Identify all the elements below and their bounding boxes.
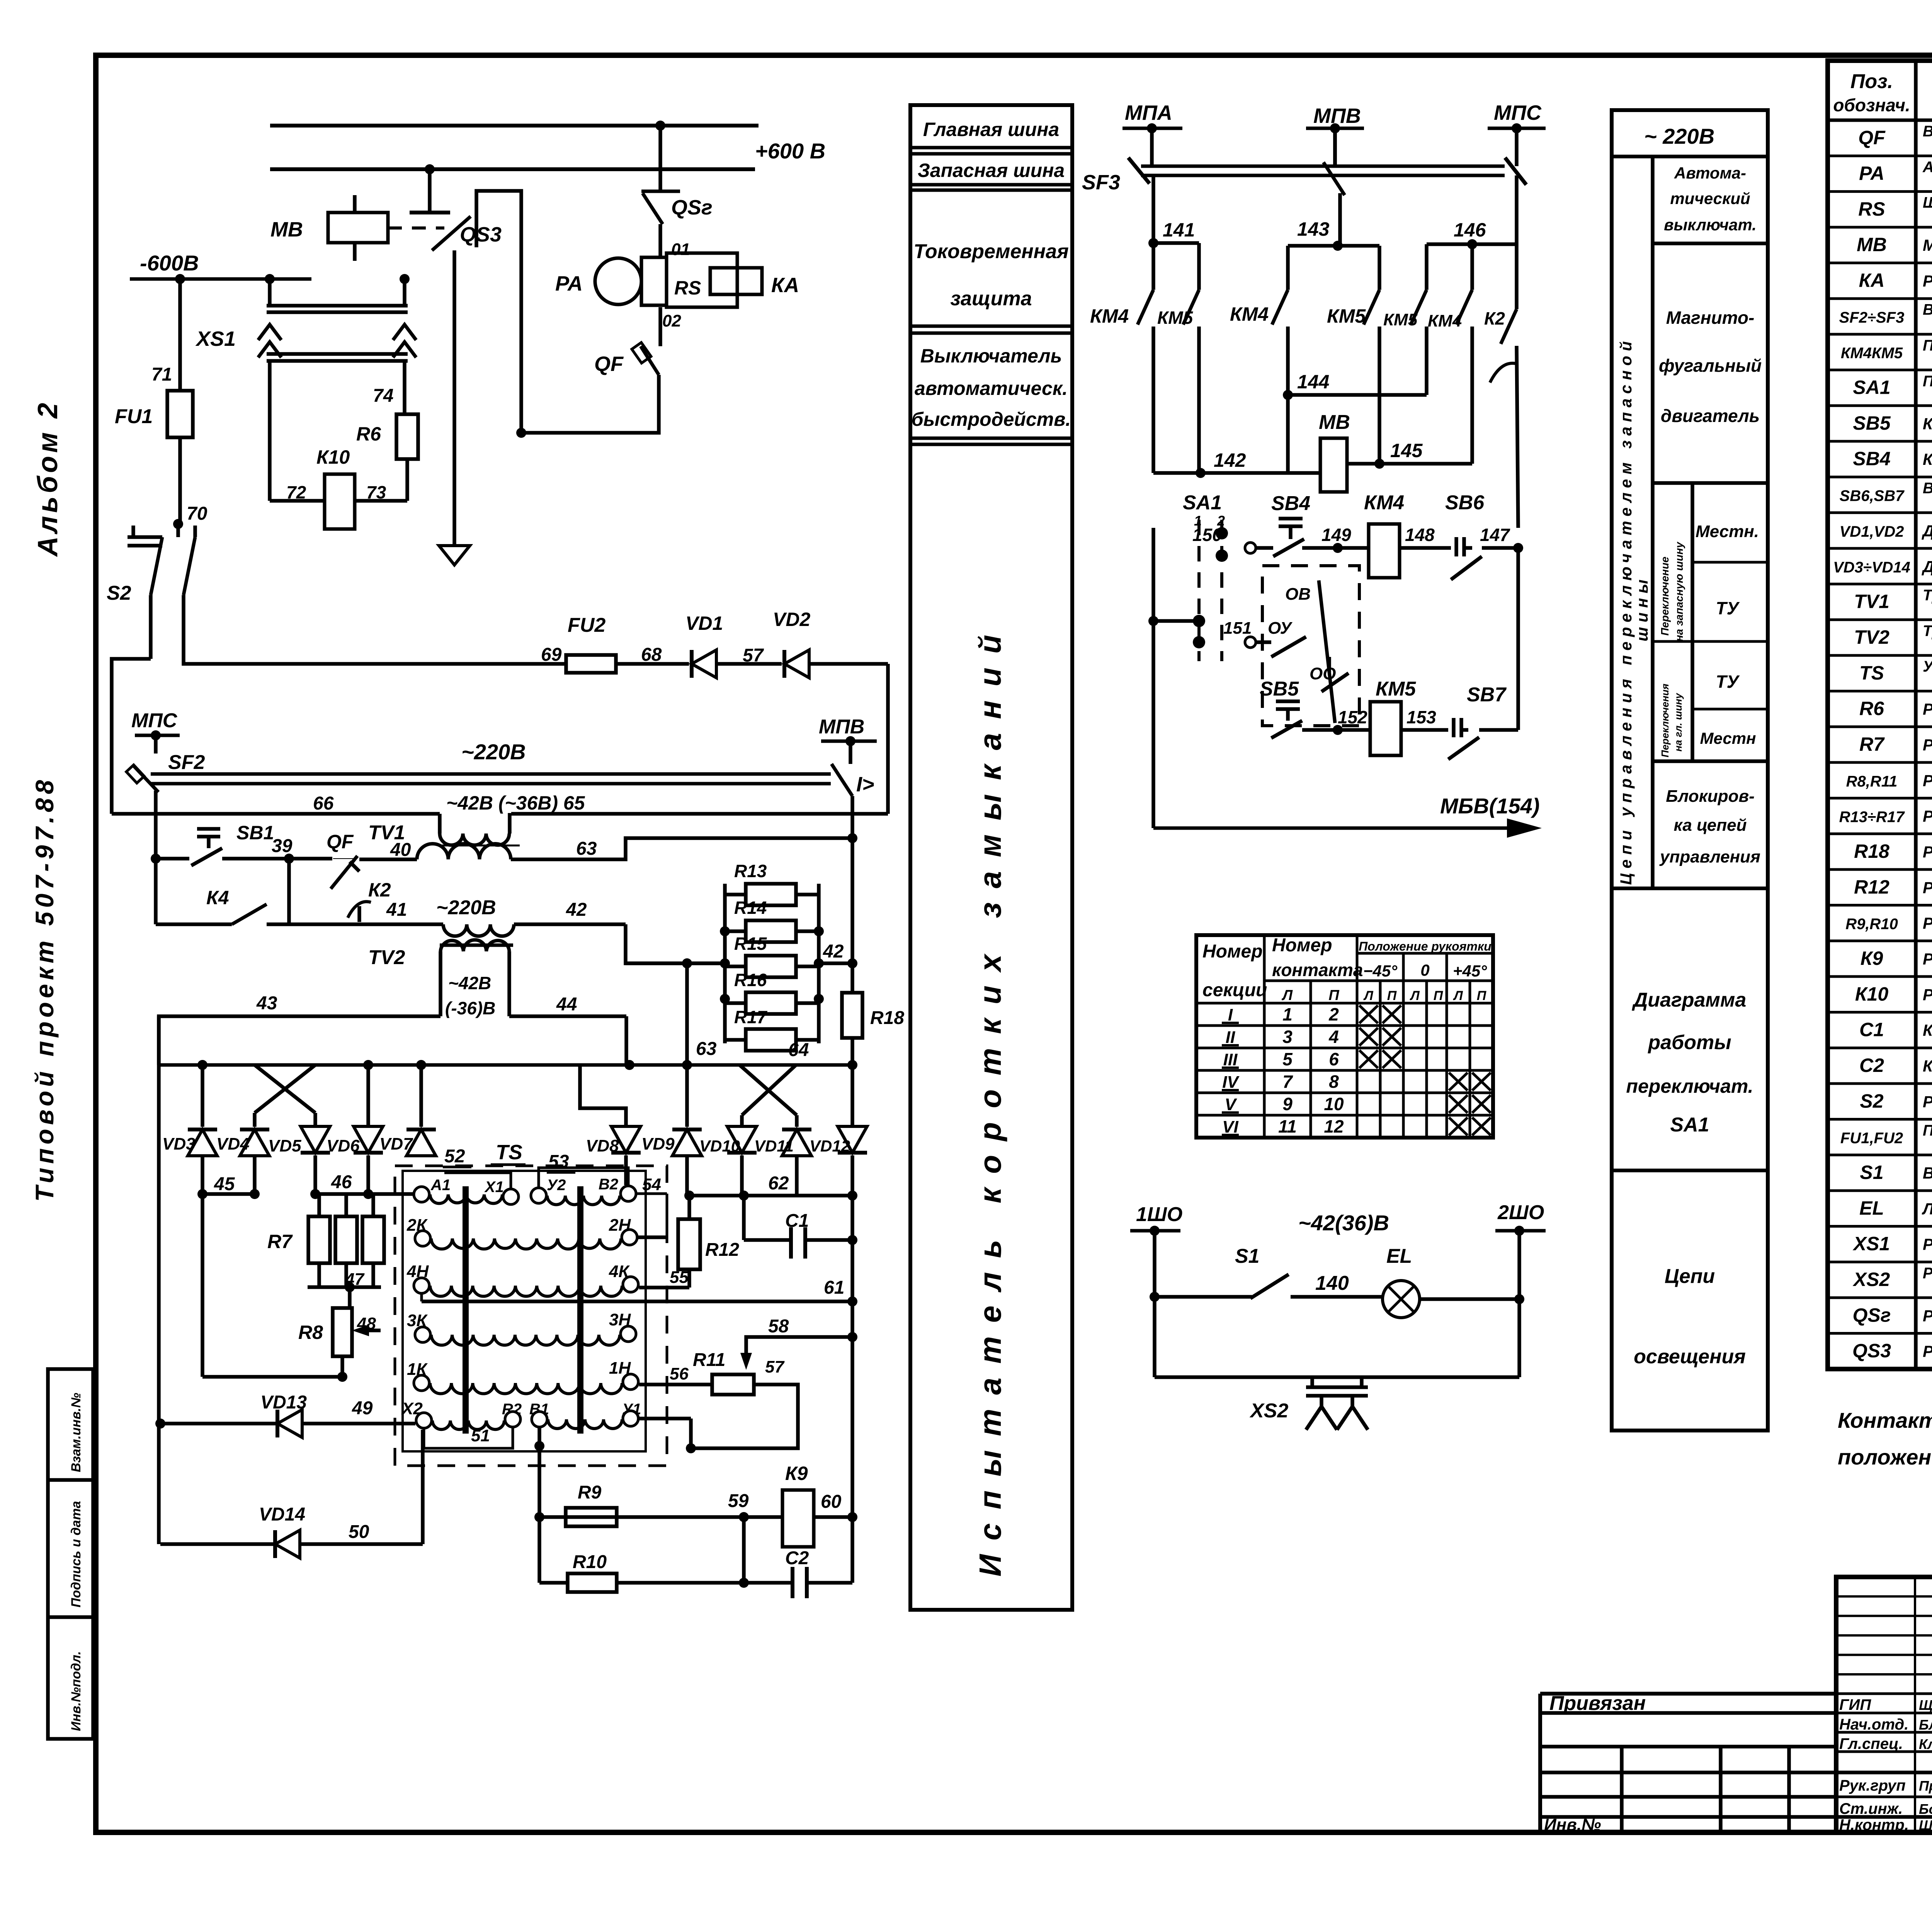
- left schematic main vertical: [157, 1016, 161, 1544]
- parts row R13÷R17: [1839, 806, 1932, 827]
- svg-text:TV1: TV1: [1854, 591, 1889, 612]
- wire R8 bottom: [202, 1372, 347, 1382]
- wire 145: [1347, 440, 1472, 469]
- wire 46: [310, 1155, 422, 1199]
- wire crossing X right: [740, 1065, 797, 1127]
- parts row SF2÷SF3: [1839, 301, 1932, 334]
- parts table grid: [1828, 61, 1932, 1369]
- diode VD10: [699, 1126, 757, 1196]
- svg-text:74: 74: [373, 386, 393, 406]
- diode VD5: [268, 1126, 330, 1155]
- svg-text:S2: S2: [107, 582, 131, 604]
- svg-text:Предохранитель ПРС-6, УЗ-П,38: Предохранитель ПРС-6, УЗ-П,380В Iпл.Вст=…: [1923, 1122, 1932, 1139]
- parts row R9,R10: [1845, 913, 1932, 934]
- TS winding 2К-2Н: [406, 1216, 637, 1249]
- resistor R13: [725, 861, 819, 905]
- svg-text:Переключение: Переключение: [1659, 556, 1671, 636]
- legend Блокировка цепей управления: [1659, 787, 1760, 866]
- node МПВ right: [819, 716, 877, 764]
- svg-text:145: 145: [1390, 440, 1423, 461]
- contact КМ5 a: [1157, 290, 1199, 473]
- wire SF2 drop: [151, 791, 161, 924]
- TS winding 1К-1Н: [407, 1359, 638, 1394]
- svg-text:Л: Л: [1363, 988, 1373, 1003]
- svg-text:Розетка штепсельная РШ-П-2-0-0: Розетка штепсельная РШ-П-2-0-01-10/42, Г…: [1923, 1265, 1932, 1282]
- wire lamp to right: [1420, 1294, 1524, 1304]
- svg-text:Трансформатор ОСМ-0.063-УЗ-220: Трансформатор ОСМ-0.063-УЗ-220 −42(36): [1923, 623, 1932, 640]
- svg-text:51: 51: [471, 1426, 490, 1445]
- svg-text:МВ: МВ: [1857, 234, 1887, 255]
- svg-text:Привезенцева: Привезенцева: [1919, 1778, 1932, 1794]
- svg-text:Л: Л: [1281, 987, 1293, 1004]
- svg-text:SF2: SF2: [168, 751, 205, 774]
- diode VD13: [155, 1392, 415, 1437]
- svg-text:R17: R17: [734, 1007, 768, 1027]
- wire 153: [1401, 707, 1448, 730]
- wire 146: [1427, 175, 1517, 290]
- wire 45: [197, 1155, 260, 1377]
- svg-text:R18: R18: [1854, 840, 1889, 862]
- svg-text:QSг: QSг: [1853, 1304, 1891, 1326]
- svg-text:Х1: Х1: [484, 1179, 504, 1196]
- switch SA1 dashed: [1183, 492, 1256, 661]
- breaker QF main: [516, 342, 659, 438]
- svg-text:~42В: ~42В: [448, 973, 491, 993]
- svg-text:К10: К10: [1855, 983, 1889, 1005]
- breaker SF2: [126, 751, 205, 792]
- parts row FU1,FU2: [1840, 1122, 1932, 1155]
- svg-text:Резистор нерегулируемый ПЭВ-25: Резистор нерегулируемый ПЭВ-25,24К,ГОСТ6…: [1923, 700, 1932, 718]
- svg-text:ТУ: ТУ: [1716, 598, 1740, 618]
- svg-text:выключат.: выключат.: [1664, 216, 1757, 234]
- node 2ШО: [1495, 1201, 1546, 1236]
- svg-text:Испытатель коротких замыка: Испытатель коротких замыканий: [973, 621, 1007, 1577]
- wire 55: [639, 1268, 689, 1288]
- svg-text:Резистор ПЭ-150, 200 ом ГОСТ: Резистор ПЭ-150, 200 ом ГОСТ 6513 -75: [1923, 807, 1932, 825]
- wire VD8 feed: [580, 1065, 626, 1127]
- parts row R18: [1854, 840, 1932, 862]
- node МПВ: [1306, 104, 1364, 166]
- wire 149: [1302, 525, 1369, 553]
- bus +600В lower: [270, 139, 825, 174]
- svg-text:68: 68: [641, 645, 662, 665]
- svg-text:Переключения: Переключения: [1659, 684, 1671, 757]
- svg-text:XS1: XS1: [195, 327, 236, 350]
- svg-text:автоматическ.: автоматическ.: [915, 378, 1068, 399]
- svg-text:Щетинский: Щетинский: [1919, 1697, 1932, 1713]
- svg-text:VD1: VD1: [685, 612, 723, 634]
- wire phase B drop: [1288, 128, 1379, 290]
- parts row QSг: [1853, 1304, 1932, 1326]
- svg-text:Инв.№: Инв.№: [1544, 1815, 1601, 1834]
- svg-text:П: П: [1328, 987, 1339, 1004]
- wire 02: [660, 307, 681, 346]
- wire 63 from TV1: [511, 833, 857, 859]
- svg-text:+600 В: +600 В: [755, 139, 825, 163]
- svg-text:К9: К9: [1861, 947, 1883, 969]
- parts row КА: [1859, 265, 1932, 297]
- legend Выключатель автоматическ. быстродейств.: [912, 345, 1071, 430]
- svg-text:7: 7: [1282, 1072, 1293, 1092]
- breaker SF3: [1082, 158, 1526, 194]
- svg-text:57: 57: [765, 1357, 785, 1376]
- svg-text:VD1,VD2: VD1,VD2: [1840, 523, 1904, 540]
- svg-text:Амперметр М-381 шкала 0: Амперметр М-381 шкала 0-4000А: [1922, 158, 1932, 175]
- svg-text:У2: У2: [547, 1177, 566, 1194]
- svg-text:МПВ: МПВ: [819, 716, 864, 738]
- svg-text:SB4: SB4: [1853, 448, 1890, 469]
- wire 140: [1291, 1272, 1383, 1297]
- svg-text:VD5: VD5: [268, 1136, 301, 1155]
- button SB4: [1271, 492, 1310, 556]
- svg-text:V: V: [1225, 1095, 1237, 1114]
- svg-text:S2: S2: [1860, 1090, 1883, 1112]
- svg-text:40: 40: [390, 840, 411, 860]
- diode VD6: [327, 1126, 383, 1155]
- svg-text:Магнито-: Магнито-: [1666, 308, 1755, 328]
- parts row SB4: [1853, 448, 1932, 469]
- legend Цепи управления переключателем запасной шины: [1617, 337, 1651, 885]
- svg-text:R7: R7: [1859, 733, 1885, 755]
- svg-text:Цепи: Цепи: [1665, 1265, 1715, 1288]
- parts row S1: [1860, 1162, 1932, 1183]
- parts row МВ: [1857, 234, 1932, 255]
- svg-text:ТУ: ТУ: [1716, 672, 1740, 692]
- svg-text:Кнопка управления КЕ-011.УЗ ис: Кнопка управления КЕ-011.УЗ исп.2ТУ16.52…: [1923, 415, 1932, 433]
- svg-text:Резистор МЛТ-2; 6, 2ком: Резистор МЛТ-2; 6, 2ком ГОСТ 7113-77: [1923, 878, 1932, 896]
- svg-text:Номер: Номер: [1202, 941, 1263, 962]
- wire 147: [1480, 525, 1523, 553]
- svg-text:140: 140: [1315, 1272, 1349, 1294]
- svg-text:QS3: QS3: [1852, 1340, 1891, 1362]
- svg-text:54: 54: [642, 1175, 661, 1194]
- diode VD3: [162, 1129, 217, 1156]
- diode VD8: [586, 1126, 641, 1185]
- svg-text:70: 70: [187, 503, 207, 524]
- svg-text:55: 55: [670, 1268, 689, 1287]
- svg-text:Клячин: Клячин: [1919, 1736, 1932, 1752]
- svg-text:~220В: ~220В: [436, 896, 496, 919]
- svg-text:Реле промежуточное РП-23УЗ ТУ1: Реле промежуточное РП-23УЗ ТУ16-523.483-…: [1923, 950, 1932, 968]
- svg-text:FU2: FU2: [568, 614, 605, 636]
- svg-text:Диод типа ДЛ161-200-8-УХЛ2 ТУ: Диод типа ДЛ161-200-8-УХЛ2 ТУ16-729104-8…: [1922, 522, 1932, 540]
- connector XS1: [195, 274, 416, 361]
- svg-text:Рубильник Р1631220, 100А ТУ16: Рубильник Р1631220, 100А ТУ16-525 005-74: [1923, 1092, 1932, 1111]
- node 1ШО: [1130, 1203, 1182, 1236]
- parts row К10: [1855, 983, 1932, 1005]
- legend Переключения на гл.шину: [1659, 684, 1684, 757]
- svg-text:на запасную шину: на запасную шину: [1673, 541, 1685, 641]
- breaker QF aux contact: [327, 831, 359, 889]
- right legend column: [1612, 110, 1768, 1431]
- svg-text:SB1: SB1: [236, 822, 274, 844]
- disconnector QSг: [641, 126, 713, 257]
- wire 144: [1283, 371, 1427, 473]
- title block: [1836, 1577, 1932, 1834]
- svg-text:SF3: SF3: [1082, 171, 1120, 194]
- svg-text:TS: TS: [1859, 662, 1884, 684]
- svg-text:150: 150: [1192, 525, 1222, 545]
- svg-text:01: 01: [671, 240, 690, 259]
- parts row RS: [1858, 194, 1932, 227]
- legend Цепи освещения: [1634, 1265, 1746, 1368]
- svg-text:TV2: TV2: [368, 946, 405, 969]
- svg-text:41: 41: [386, 900, 407, 920]
- svg-text:VD9: VD9: [641, 1135, 675, 1153]
- parts row С1: [1859, 1019, 1932, 1041]
- bus +600В upper: [270, 121, 759, 131]
- parts row XS2: [1852, 1265, 1932, 1297]
- svg-text:Блохин: Блохин: [1919, 1717, 1932, 1733]
- svg-text:R8,R11: R8,R11: [1846, 773, 1898, 790]
- wire 71: [151, 279, 180, 391]
- wire XS1 left leg: [268, 361, 272, 501]
- svg-text:Разъединитель РЛВОМ-10/1000,Ва: Разъединитель РЛВОМ-10/1000,Вар.П,ГОСТ68…: [1923, 1342, 1932, 1361]
- parts row XS1: [1852, 1233, 1932, 1255]
- svg-text:R14: R14: [734, 898, 767, 918]
- svg-text:Местн.: Местн.: [1696, 522, 1759, 541]
- svg-text:Трансформатор ОСМ-1.0-УЗ-220: Трансформатор ОСМ-1.0-УЗ-220 −42(36): [1923, 587, 1932, 604]
- wire 63 label bottom: [626, 958, 725, 1065]
- resistor R6: [356, 414, 418, 501]
- svg-text:двигатель: двигатель: [1661, 406, 1760, 426]
- svg-text:тический: тический: [1670, 189, 1750, 208]
- resistor R14: [720, 898, 824, 942]
- wire X2 to VD14: [421, 1430, 425, 1544]
- svg-text:XS1: XS1: [1852, 1233, 1890, 1255]
- wire 62: [687, 1173, 857, 1201]
- limit switch SB6: [1445, 492, 1485, 580]
- svg-text:SF2÷SF3: SF2÷SF3: [1839, 309, 1905, 326]
- svg-text:Пускатель магнитный ПМЛ-250104: Пускатель магнитный ПМЛ-250104 АУЗ,220В: [1923, 337, 1932, 354]
- wire 150: [1192, 525, 1273, 548]
- svg-text:Кнопка управления КЕ-011УЗисп.: Кнопка управления КЕ-011УЗисп.2ТУ16.526.…: [1923, 450, 1932, 468]
- svg-text:2: 2: [1328, 1004, 1339, 1024]
- parts row TV1: [1854, 587, 1932, 619]
- svg-text:141: 141: [1163, 219, 1195, 241]
- relay coil К9: [534, 1463, 857, 1547]
- svg-text:−45°: −45°: [1363, 962, 1398, 980]
- svg-text:Привязан: Привязан: [1549, 1692, 1646, 1715]
- svg-text:50: 50: [349, 1522, 369, 1542]
- wire 42 right: [514, 900, 626, 924]
- svg-text:SB6,SB7: SB6,SB7: [1840, 488, 1905, 505]
- svg-text:58: 58: [768, 1316, 789, 1337]
- svg-text:R15: R15: [734, 934, 767, 954]
- svg-text:КА: КА: [771, 274, 799, 297]
- svg-text:Взам.инв.№: Взам.инв.№: [69, 1393, 83, 1472]
- resistor bank R7: [267, 1194, 384, 1287]
- svg-text:52: 52: [444, 1146, 465, 1167]
- switch S2: [107, 524, 195, 659]
- svg-text:8: 8: [1329, 1072, 1339, 1092]
- TS winding 3К-3Н: [407, 1310, 636, 1345]
- svg-text:Резистор МЛТ-2, 620ом±2% ГО: Резистор МЛТ-2, 620ом±2% ГОСТ7113-77: [1923, 736, 1932, 754]
- wire 148: [1400, 525, 1451, 548]
- svg-text:VI: VI: [1222, 1118, 1238, 1136]
- wire 64: [788, 1040, 809, 1060]
- svg-text:Рук.груп: Рук.груп: [1839, 1777, 1906, 1794]
- node МПС: [1488, 101, 1546, 166]
- parts row SB5: [1853, 412, 1932, 434]
- svg-text:EL: EL: [1386, 1245, 1412, 1267]
- wire VD3 drop: [201, 1065, 204, 1127]
- svg-text:Выключатель путевой ВПК-2111 У: Выключатель путевой ВПК-2111 У2: [1923, 480, 1932, 497]
- svg-text:FU1,FU2: FU1,FU2: [1840, 1130, 1903, 1147]
- contact КМ5 b: [1327, 290, 1379, 464]
- svg-text:QF: QF: [594, 352, 624, 376]
- transformer TV1: [368, 813, 520, 859]
- svg-text:R9,R10: R9,R10: [1845, 916, 1898, 933]
- svg-text:147: 147: [1480, 525, 1510, 545]
- parts row EL: [1859, 1197, 1932, 1219]
- wire 42 label right: [819, 941, 852, 963]
- magnetic amplifier TS: [395, 1141, 667, 1466]
- svg-text:R9: R9: [578, 1482, 602, 1503]
- svg-text:Цепи управления переключателем: Цепи управления переключателем запасной: [1617, 337, 1635, 885]
- svg-text:К9: К9: [785, 1463, 808, 1484]
- svg-text:Магнитофугальный двигатель ~: Магнитофугальный двигатель ~ 220В: [1923, 236, 1932, 254]
- svg-text:144: 144: [1297, 371, 1329, 393]
- resistor R18: [842, 993, 904, 1065]
- wire 56: [639, 1364, 712, 1385]
- svg-text:151: 151: [1223, 619, 1252, 638]
- relay coil К10: [270, 446, 407, 529]
- svg-text:R8: R8: [298, 1322, 323, 1343]
- svg-text:FU1: FU1: [115, 405, 153, 428]
- svg-text:11: 11: [1278, 1116, 1297, 1136]
- bus -600В: [130, 251, 311, 284]
- resistor R17: [725, 1007, 819, 1051]
- svg-text:SB7: SB7: [1467, 684, 1507, 706]
- title block left extension: [1540, 1692, 1932, 1834]
- svg-text:Конденсатор К-50-12,50МКФ×50В,: Конденсатор К-50-12,50МКФ×50В,ОЖО.464.07…: [1923, 1057, 1932, 1075]
- potentiometer R11: [693, 1350, 754, 1395]
- switch S1: [1150, 1245, 1289, 1302]
- legend Диаграмма работы переключат. SA1: [1626, 989, 1753, 1136]
- parts table header: [1833, 70, 1932, 115]
- wire VD7 drop: [419, 1065, 423, 1127]
- svg-text:Главная шина: Главная шина: [923, 119, 1059, 140]
- svg-text:Контакты конечных выключател: Контакты конечных выключателей SВ6 и S В…: [1838, 1408, 1932, 1432]
- svg-text:Инв.№подл.: Инв.№подл.: [69, 1651, 83, 1731]
- svg-text:148: 148: [1405, 525, 1435, 545]
- svg-text:фугальный: фугальный: [1659, 356, 1762, 376]
- svg-text:ГИП: ГИП: [1839, 1696, 1871, 1713]
- wire 44: [509, 994, 626, 1065]
- svg-text:66: 66: [313, 793, 334, 814]
- svg-text:49: 49: [352, 1398, 373, 1419]
- svg-text:В2: В2: [599, 1176, 618, 1193]
- svg-text:Переключатель универсальный УП: Переключатель универсальный УП5313-Ж70: [1923, 373, 1932, 390]
- diode VD4: [216, 1129, 269, 1156]
- svg-text:QS3: QS3: [460, 223, 502, 246]
- diode VD1: [685, 612, 782, 678]
- node 70: [173, 503, 207, 529]
- svg-text:149: 149: [1321, 525, 1351, 545]
- svg-text:Н.контр.: Н.контр.: [1839, 1817, 1909, 1834]
- svg-text:КМ4: КМ4: [1230, 303, 1269, 325]
- svg-text:шины: шины: [1633, 575, 1651, 641]
- wire 142: [1153, 449, 1320, 478]
- svg-text:Диаграмма: Диаграмма: [1632, 989, 1747, 1011]
- parts row QF: [1858, 123, 1932, 155]
- svg-text:Реле тока РТ-40/10 У4 ТУ16.5: Реле тока РТ-40/10 У4 ТУ16.523.468-78: [1923, 272, 1932, 290]
- svg-text:12: 12: [1324, 1116, 1344, 1136]
- svg-text:S1: S1: [1235, 1245, 1260, 1267]
- svg-text:I: I: [1228, 1005, 1233, 1024]
- svg-text:П: П: [1387, 988, 1397, 1003]
- parts row R12: [1854, 876, 1932, 898]
- svg-text:А1: А1: [430, 1177, 451, 1194]
- svg-text:39: 39: [272, 836, 293, 856]
- wire 141: [1163, 219, 1199, 290]
- svg-text:PA: PA: [1859, 163, 1884, 184]
- capacitor C1: [638, 1196, 857, 1259]
- resistor R9: [566, 1482, 617, 1526]
- fuse FU2: [566, 614, 689, 673]
- svg-text:IV: IV: [1222, 1073, 1240, 1092]
- svg-text:Резистор переменный ППБ-3В,47о: Резистор переменный ППБ-3В,47ом,ГОСТ 103…: [1923, 771, 1932, 789]
- svg-text:обознач.: обознач.: [1833, 95, 1910, 115]
- svg-text:Нач.отд.: Нач.отд.: [1839, 1716, 1908, 1733]
- motor МВ: [270, 195, 444, 261]
- svg-text:S1: S1: [1860, 1162, 1883, 1183]
- contact КМ5 c: [1383, 290, 1427, 395]
- svg-text:42: 42: [823, 941, 844, 962]
- limit switch SB7: [1448, 684, 1507, 759]
- svg-text:переключат.: переключат.: [1626, 1075, 1753, 1097]
- svg-text:57: 57: [743, 645, 764, 666]
- svg-text:153: 153: [1406, 707, 1436, 727]
- svg-text:положении QSз на главной ш: положении QSз на главной шине.: [1838, 1445, 1932, 1469]
- svg-text:Выключатель автоматический быс: Выключатель автоматический быстродейств.: [1923, 123, 1932, 140]
- svg-text:QF: QF: [1858, 127, 1886, 148]
- svg-text:9: 9: [1282, 1094, 1293, 1114]
- svg-text:61: 61: [824, 1277, 844, 1298]
- svg-text:R12: R12: [1854, 876, 1889, 898]
- svg-text:C2: C2: [785, 1548, 809, 1568]
- svg-text:60: 60: [821, 1492, 842, 1512]
- svg-text:QSг: QSг: [671, 196, 713, 219]
- svg-text:Токовременная: Токовременная: [913, 240, 1069, 263]
- svg-text:TV2: TV2: [1854, 626, 1889, 648]
- contactor coil КМ5: [1370, 678, 1416, 755]
- svg-text:EL: EL: [1859, 1197, 1884, 1219]
- button SB1: [191, 822, 274, 866]
- diode VD12: [810, 1126, 867, 1196]
- right vertical of left schematic: [852, 1196, 853, 1583]
- wire 57 loop: [639, 1357, 798, 1453]
- svg-text:К10: К10: [316, 446, 350, 468]
- svg-text:-600В: -600В: [140, 251, 199, 275]
- svg-text:1: 1: [1282, 1004, 1293, 1024]
- ground: [439, 546, 470, 565]
- label ~42В (-36)В: [445, 973, 495, 1018]
- svg-text:Л: Л: [1409, 988, 1420, 1003]
- resistor R15: [720, 934, 824, 977]
- wire SA1 feed: [1148, 528, 1199, 828]
- svg-text:1ШО: 1ШО: [1136, 1203, 1182, 1226]
- svg-text:6: 6: [1329, 1049, 1339, 1069]
- svg-text:QF: QF: [327, 831, 354, 852]
- contact К2: [1484, 244, 1518, 528]
- svg-text:ОО: ОО: [1310, 664, 1336, 683]
- svg-text:Л: Л: [1452, 988, 1463, 1003]
- svg-text:КМ4: КМ4: [1090, 305, 1129, 327]
- svg-text:SB4: SB4: [1271, 492, 1310, 515]
- svg-text:С1: С1: [1859, 1019, 1884, 1041]
